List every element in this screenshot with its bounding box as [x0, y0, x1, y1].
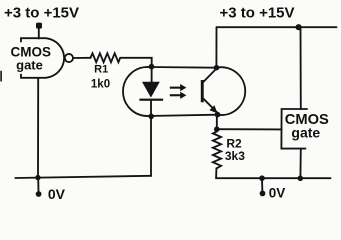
- svg-text:gate: gate: [291, 125, 320, 141]
- svg-text:+3 to +15V: +3 to +15V: [4, 4, 79, 21]
- svg-text:gate: gate: [16, 57, 43, 72]
- svg-text:1k0: 1k0: [91, 78, 110, 90]
- svg-text:3k3: 3k3: [225, 149, 245, 163]
- svg-text:+3 to +15V: +3 to +15V: [219, 4, 294, 21]
- svg-text:0V: 0V: [269, 185, 286, 200]
- svg-text:0V: 0V: [48, 186, 66, 202]
- svg-text:R1: R1: [94, 63, 108, 75]
